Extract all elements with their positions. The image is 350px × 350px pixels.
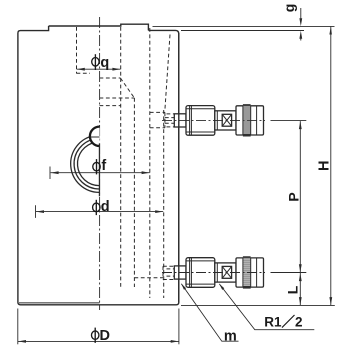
top female coupler bbox=[236, 106, 264, 135]
extension line lip top (to H and g) bbox=[153, 25, 335, 27]
bottom coupler block bbox=[186, 258, 215, 288]
svg-text:R1／2: R1／2 bbox=[264, 315, 302, 330]
hidden line: thread phi-q right / oil channel left bbox=[120, 27, 122, 287]
top coupler neck bbox=[215, 111, 236, 130]
handle arcs bbox=[71, 136, 100, 193]
top port centerline bbox=[162, 119, 265, 121]
svg-text:q: q bbox=[100, 55, 109, 71]
svg-text:g: g bbox=[281, 4, 297, 13]
cylinder body outline bbox=[18, 26, 179, 305]
bottom stub bbox=[174, 266, 186, 279]
hidden line: bore right bbox=[163, 110, 165, 298]
hidden line: bore right slant bbox=[165, 35, 170, 111]
svg-text:D: D bbox=[100, 328, 110, 344]
dimension g bbox=[299, 8, 302, 41]
svg-text:L: L bbox=[284, 285, 300, 294]
top port centerline extension bbox=[271, 119, 307, 121]
label phi-f bbox=[93, 159, 100, 174]
hidden line: thread phi-q left bbox=[76, 27, 78, 74]
handle slot edge bbox=[98, 144, 100, 197]
bottom port centerline bbox=[162, 272, 265, 274]
knob chord bbox=[90, 136, 100, 138]
svg-text:m: m bbox=[224, 328, 237, 344]
svg-text:d: d bbox=[101, 199, 110, 215]
top port hidden drill bbox=[150, 112, 179, 127]
top coupler block bbox=[186, 106, 215, 136]
label phi-q bbox=[92, 54, 99, 70]
dimension H bbox=[329, 27, 332, 306]
dimension phi-f bbox=[50, 167, 150, 180]
dimension phi-d bbox=[36, 205, 164, 218]
hidden line: oil channel right bbox=[133, 98, 135, 287]
hidden line: channel top bbox=[100, 97, 135, 99]
handle pivot knob bbox=[90, 127, 100, 146]
svg-text:f: f bbox=[101, 158, 106, 174]
top coupler bbox=[174, 114, 186, 127]
bottom female coupler bbox=[236, 258, 264, 287]
stub bbox=[174, 114, 186, 127]
top X box bbox=[222, 114, 231, 126]
hidden line: cone diagonal bbox=[120, 78, 134, 98]
bottom inner line bbox=[19, 302, 100, 304]
dimension L bbox=[299, 273, 302, 305]
bottom port centerline extension bbox=[271, 272, 307, 274]
extension line body bottom (to H and L) bbox=[181, 304, 335, 306]
bottom X box bbox=[222, 266, 231, 278]
top knurl bbox=[243, 105, 251, 136]
dimension P bbox=[299, 121, 302, 272]
dimension phi-D bbox=[18, 309, 179, 345]
label phi-D bbox=[92, 328, 99, 343]
leader m bbox=[181, 284, 238, 341]
svg-text:H: H bbox=[317, 161, 333, 171]
hidden line: thread bottom left bbox=[77, 72, 91, 74]
extension line body top (to g) bbox=[181, 30, 304, 32]
label phi-d bbox=[93, 200, 100, 215]
leader R1/2 bbox=[219, 284, 314, 330]
bottom knurl bbox=[243, 257, 251, 288]
svg-text:P: P bbox=[285, 192, 301, 201]
hidden line: thread bottom right bbox=[100, 77, 121, 79]
gland lip top bbox=[49, 24, 149, 30]
vertical centerline bbox=[99, 17, 101, 310]
bottom port hidden drill bbox=[134, 266, 179, 279]
hidden line: channel second bbox=[100, 105, 121, 107]
hidden line: plunger right bbox=[149, 28, 151, 298]
body right edge (over stubs) bbox=[178, 33, 180, 302]
bottom coupler neck bbox=[215, 263, 236, 282]
dimension phi-q bbox=[77, 68, 121, 71]
